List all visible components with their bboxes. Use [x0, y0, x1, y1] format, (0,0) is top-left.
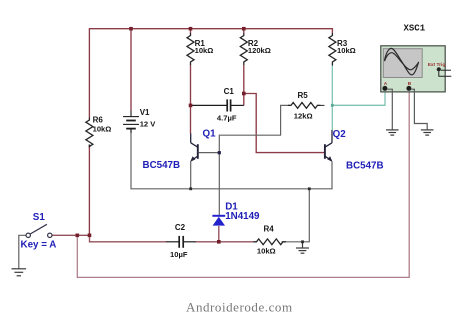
svg-text:10kΩ: 10kΩ — [93, 125, 112, 134]
resistor R1 — [187, 33, 194, 65]
resistor R5 — [288, 103, 320, 109]
junction node D1 anode — [217, 240, 221, 244]
svg-text:Key = A: Key = A — [21, 239, 57, 250]
wire Q1 base to R5 left — [199, 105, 291, 152]
wire V1 top branch — [130, 29, 132, 111]
wire green node to oscilloscope input A — [332, 91, 385, 105]
junction node rail to ground — [308, 187, 311, 190]
svg-text:1N4149: 1N4149 — [225, 211, 260, 222]
resistor R3 — [329, 33, 336, 66]
wire D1 anode stub — [218, 226, 220, 242]
wire Q1 emitter to rail — [190, 162, 192, 189]
scope trace wave 2 — [385, 53, 419, 70]
junction node switch R6 — [88, 234, 92, 238]
junction node C1 left / Q1 collector — [189, 104, 193, 108]
junction node switch to bottom rail — [76, 234, 80, 238]
wire Q1 base to D1 cathode — [218, 153, 220, 216]
junction node top rail R1 — [189, 27, 193, 31]
junction node R4 ground — [301, 240, 304, 243]
svg-text:10kΩ: 10kΩ — [337, 46, 356, 55]
ground scope B — [421, 130, 434, 135]
wire rail to R4 right and ground — [282, 189, 310, 242]
wire R6 bottom to switch node — [88, 145, 90, 236]
svg-text:Androiderode.com: Androiderode.com — [186, 300, 293, 312]
capacitor C1 — [191, 99, 244, 111]
svg-text:BC547B: BC547B — [143, 160, 181, 171]
ground below S1 — [12, 269, 27, 276]
svg-text:4.7µF: 4.7µF — [217, 114, 237, 123]
svg-text:V1: V1 — [140, 108, 150, 117]
wire C2 right to D1 anode to R4 — [196, 241, 254, 243]
wire scope B- to ground — [411, 89, 427, 130]
resistor R4 — [254, 239, 286, 245]
svg-text:R4: R4 — [264, 225, 275, 234]
wire scope A- to ground — [387, 89, 392, 130]
transistor Q1 — [191, 134, 198, 161]
svg-text:10kΩ: 10kΩ — [257, 247, 276, 256]
svg-text:C2: C2 — [175, 223, 186, 232]
svg-text:BC547B: BC547B — [346, 161, 384, 172]
ground at R4 — [296, 242, 309, 253]
junction node Q1 emitter rail — [189, 187, 192, 190]
wire S1 to trigger line — [52, 235, 166, 242]
wire R2 node to Q2 base — [244, 94, 324, 153]
diode D1 1N4149 — [212, 216, 225, 226]
transistor Q2 — [325, 130, 332, 161]
scope trace wave 1 — [385, 48, 419, 74]
svg-text:12kΩ: 12kΩ — [294, 111, 313, 120]
svg-text:10µF: 10µF — [170, 250, 188, 259]
svg-text:Ext Trig: Ext Trig — [428, 62, 446, 68]
resistor R2 — [240, 33, 247, 65]
junction node Q1 base — [218, 151, 221, 154]
switch S1 — [26, 224, 52, 237]
wire Vcc top rail — [89, 29, 332, 118]
svg-text:C1: C1 — [224, 87, 235, 96]
junction node top rail V1 — [129, 27, 133, 31]
wire R2 branch top — [243, 29, 245, 33]
junction node top rail R2 — [242, 27, 246, 31]
wire emitter ground rail — [131, 129, 332, 189]
svg-text:10kΩ: 10kΩ — [195, 46, 214, 55]
junction node green R5 — [331, 104, 334, 107]
svg-text:Q2: Q2 — [333, 129, 347, 140]
wire R1 branch top — [190, 29, 192, 33]
svg-text:S1: S1 — [33, 212, 46, 223]
wire R2 bottom to C1 right node — [243, 65, 245, 105]
oscilloscope XSC1 — [381, 46, 452, 92]
wire green R3 bottom to Q2 collector — [331, 66, 333, 131]
junction node R2 bottom — [242, 92, 246, 96]
wire R1 bottom to C1 node to Q1 collector — [190, 65, 192, 134]
svg-text:R5: R5 — [298, 91, 309, 100]
ground scope A — [386, 130, 399, 135]
resistor R6 — [86, 118, 93, 147]
svg-text:R6: R6 — [93, 115, 104, 124]
svg-text:Q1: Q1 — [203, 128, 217, 139]
wire S1 left terminal to ground — [19, 235, 26, 268]
svg-text:120kΩ: 120kΩ — [248, 46, 271, 55]
svg-text:XSC1: XSC1 — [404, 23, 426, 33]
capacitor C2 — [166, 236, 196, 248]
wire bottom rail to scope B — [77, 91, 409, 277]
wire R5 right lead — [317, 104, 325, 106]
svg-text:12 V: 12 V — [140, 120, 157, 129]
battery V1 — [123, 111, 139, 134]
ext trig terminal — [437, 67, 441, 71]
